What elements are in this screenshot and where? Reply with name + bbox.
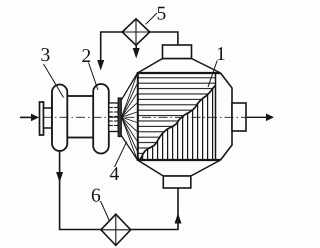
label 2 leader bbox=[89, 63, 99, 91]
filter F5 (diamond with cross) bbox=[122, 19, 150, 45]
chamber inlet cone (bottom edge) bbox=[121, 136, 137, 161]
right outlet port bbox=[232, 103, 246, 131]
pump body cylinder bbox=[52, 96, 109, 138]
outlet line with arrow bbox=[246, 114, 274, 122]
bottom port neck bbox=[163, 176, 191, 188]
axis centerline (dash-dot) bbox=[43, 116, 247, 118]
pump inlet hub bbox=[44, 108, 53, 128]
chamber rotor region: vertical hatch below S-curve bbox=[140, 85, 216, 160]
label 4 bbox=[110, 167, 119, 180]
nozzle neck (striped block) bbox=[109, 103, 118, 132]
chamber inlet cone (top edge) bbox=[121, 73, 137, 100]
label 3 leader bbox=[44, 64, 64, 98]
chamber bottom dome trapezoid bbox=[138, 160, 221, 176]
label 3 bbox=[41, 48, 49, 61]
label 5 leader bbox=[146, 13, 157, 24]
pump rotor capsule 3 (left) bbox=[52, 85, 67, 152]
chamber rotor region: horizontal hatch above S-curve bbox=[138, 73, 216, 160]
S-curve boundary in chamber 1 bbox=[140, 85, 216, 160]
spray fan lines from nozzle bbox=[122, 75, 138, 160]
label 1 leader bbox=[208, 61, 217, 88]
chamber inner cartridge right edge bbox=[215, 73, 217, 160]
label 5 bbox=[158, 7, 166, 20]
pipe: filter 5 left branch down to rotor 2 bbox=[97, 32, 122, 71]
filter F6 (diamond with cross) bbox=[101, 214, 131, 245]
label 1 bbox=[218, 47, 225, 60]
label 4 leader bbox=[115, 142, 127, 167]
pipe: filter 5 bottom branch with arrow bbox=[133, 45, 140, 58]
chamber top dome trapezoid bbox=[138, 59, 221, 74]
chamber bottom wall bbox=[137, 159, 221, 161]
pipe: filter 5 right branch to top port bbox=[150, 32, 178, 45]
label 2 bbox=[82, 49, 90, 62]
chamber right bay bbox=[221, 73, 233, 160]
chamber inner cartridge left edge bbox=[137, 73, 139, 160]
nozzle plate 4 bbox=[118, 98, 121, 137]
label 6 bbox=[92, 189, 100, 202]
pump rotor capsule 2 (right) bbox=[93, 84, 109, 154]
pipe: pump drain down-left with arrow bbox=[56, 151, 101, 230]
chamber top wall bbox=[137, 72, 221, 74]
top port neck bbox=[163, 45, 192, 59]
pipe: inlet line with arrow into pump flange bbox=[20, 114, 39, 122]
pump inlet flange plate bbox=[40, 102, 44, 135]
label 6 leader bbox=[101, 201, 110, 221]
pipe: filter 6 to bottom port with arrow up bbox=[131, 188, 182, 230]
